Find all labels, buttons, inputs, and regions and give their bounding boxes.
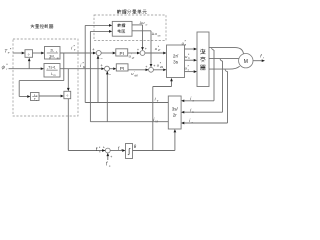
dashed box decoupling unit — [94, 15, 166, 41]
svg-text:3s: 3s — [173, 60, 179, 65]
wire sum1 to PI1 — [101, 52, 113, 54]
summing junction sum2 — [105, 66, 110, 71]
wire ia feedback — [184, 100, 214, 102]
label title vector-controller (Chinese) — [31, 24, 53, 28]
wire theta riser to 3s2r — [174, 132, 176, 150]
label u*a — [182, 39, 187, 46]
block decoupling voltage calculator — [112, 21, 132, 36]
wire ua to inverter — [185, 48, 194, 50]
block inverter (Chinese vertical) — [197, 32, 209, 87]
label i*M — [80, 62, 85, 70]
label iM feedback — [153, 117, 158, 123]
wire iM to decoupling input2 — [89, 31, 91, 121]
wire Te* input — [13, 52, 22, 54]
label iT feedback — [155, 97, 159, 103]
svg-text:r: r — [263, 56, 264, 60]
block PI2 — [116, 64, 128, 71]
label delta-u-sT — [140, 21, 149, 26]
label fs* — [96, 146, 101, 154]
summing junction sum1 — [96, 51, 101, 56]
wire slip frequency down — [67, 99, 69, 151]
label ia — [190, 96, 194, 102]
block G1 2Lr/3npLm — [45, 47, 61, 60]
current tap C — [225, 69, 227, 71]
wire decoupling out2 to sum4 — [132, 30, 151, 32]
svg-text:M: M — [244, 59, 248, 65]
wire phase C — [209, 66, 240, 69]
wire motor shaft — [253, 60, 262, 62]
svg-text:sM: sM — [134, 74, 137, 77]
label Te* — [4, 48, 11, 55]
label psi-r* — [2, 63, 9, 71]
wire sum5 to integrator — [110, 150, 122, 152]
wire sum4 to 2r3s — [153, 69, 163, 71]
svg-text:ψ: ψ — [2, 64, 6, 70]
wire G1 to sum1 — [60, 52, 93, 54]
current tap A — [212, 48, 214, 50]
wire down left side — [18, 81, 20, 97]
svg-text:m: m — [57, 57, 59, 60]
label title decoupling-unit (Chinese) — [117, 10, 146, 14]
wire iT* branch down — [63, 53, 65, 81]
label u*c — [185, 64, 190, 71]
wire iM feedback riser — [106, 72, 108, 122]
wire psi branch up to divider — [28, 61, 30, 69]
block PI1 — [116, 49, 128, 56]
label ic — [189, 118, 193, 124]
wire ic feedback — [184, 122, 227, 124]
block integrator — [126, 144, 133, 159]
wire iM output — [90, 121, 168, 123]
wire PI2 to sum4 — [128, 69, 146, 71]
label f1 — [118, 146, 123, 152]
svg-text:PI: PI — [120, 51, 124, 56]
wire decoupling out1 to sum3 — [132, 24, 143, 26]
wire theta riser to 2r3s — [152, 87, 154, 151]
label ib — [190, 108, 194, 114]
svg-text:PI: PI — [120, 66, 124, 71]
dashed box vector controller — [13, 39, 78, 116]
wire sum3 to 2r3s — [145, 52, 164, 54]
wire iT output — [85, 102, 168, 104]
svg-text:m: m — [54, 74, 56, 77]
svg-text:sM: sM — [157, 35, 160, 37]
wire iT feedback riser — [97, 56, 99, 103]
wire across to left — [19, 80, 64, 82]
divider2 box — [64, 91, 71, 98]
block G2 (Trs+1)/Lm — [44, 64, 60, 78]
svg-text:2r/: 2r/ — [173, 54, 179, 59]
block 3s/2r transform — [168, 96, 181, 129]
wire iT to decoupling input1 — [84, 25, 86, 102]
wire phase B — [209, 58, 239, 60]
svg-text:sM: sM — [160, 66, 163, 69]
wire psi-r* input — [9, 68, 41, 70]
wire phase A — [209, 48, 244, 55]
label i*T — [71, 44, 76, 52]
current tap B — [220, 59, 222, 61]
summing junction sum4 — [149, 67, 154, 72]
wire into block G3 — [19, 96, 27, 98]
label delta-u-sM — [152, 32, 161, 37]
svg-text:3s/: 3s/ — [172, 106, 179, 111]
motor M circle — [239, 54, 253, 68]
label u*sT — [155, 45, 161, 52]
svg-text:2L: 2L — [50, 49, 54, 53]
wire sum2 to PI2 — [109, 68, 113, 70]
wire ub to inverter — [185, 59, 194, 61]
summing junction sum3 — [140, 51, 145, 56]
wire G3 to divider2 — [39, 95, 61, 97]
divider box (Te/psi) — [25, 50, 33, 58]
summing junction sum5 — [105, 148, 110, 153]
label u'sT — [129, 53, 135, 60]
svg-text:2r: 2r — [173, 112, 178, 117]
label u*b — [185, 53, 190, 60]
wire psi branch down to divider2 — [67, 69, 69, 88]
block 2r/3s transform — [167, 45, 185, 78]
wire divider to block G1 — [33, 52, 42, 54]
label u*sM — [157, 62, 163, 69]
wire G2 to sum2 — [60, 68, 101, 70]
wire PI1 to sum3 — [128, 52, 137, 54]
wire slip frequency to sum5 — [68, 150, 105, 152]
label u'sM — [131, 70, 137, 77]
block G3 Lm/Tr — [31, 93, 40, 101]
wire speed feedback into sum5 — [107, 156, 109, 160]
wire theta rail — [133, 150, 175, 152]
wire ib feedback — [184, 111, 222, 113]
svg-text:T s+1: T s+1 — [48, 66, 56, 70]
wire uc to inverter — [185, 71, 194, 73]
